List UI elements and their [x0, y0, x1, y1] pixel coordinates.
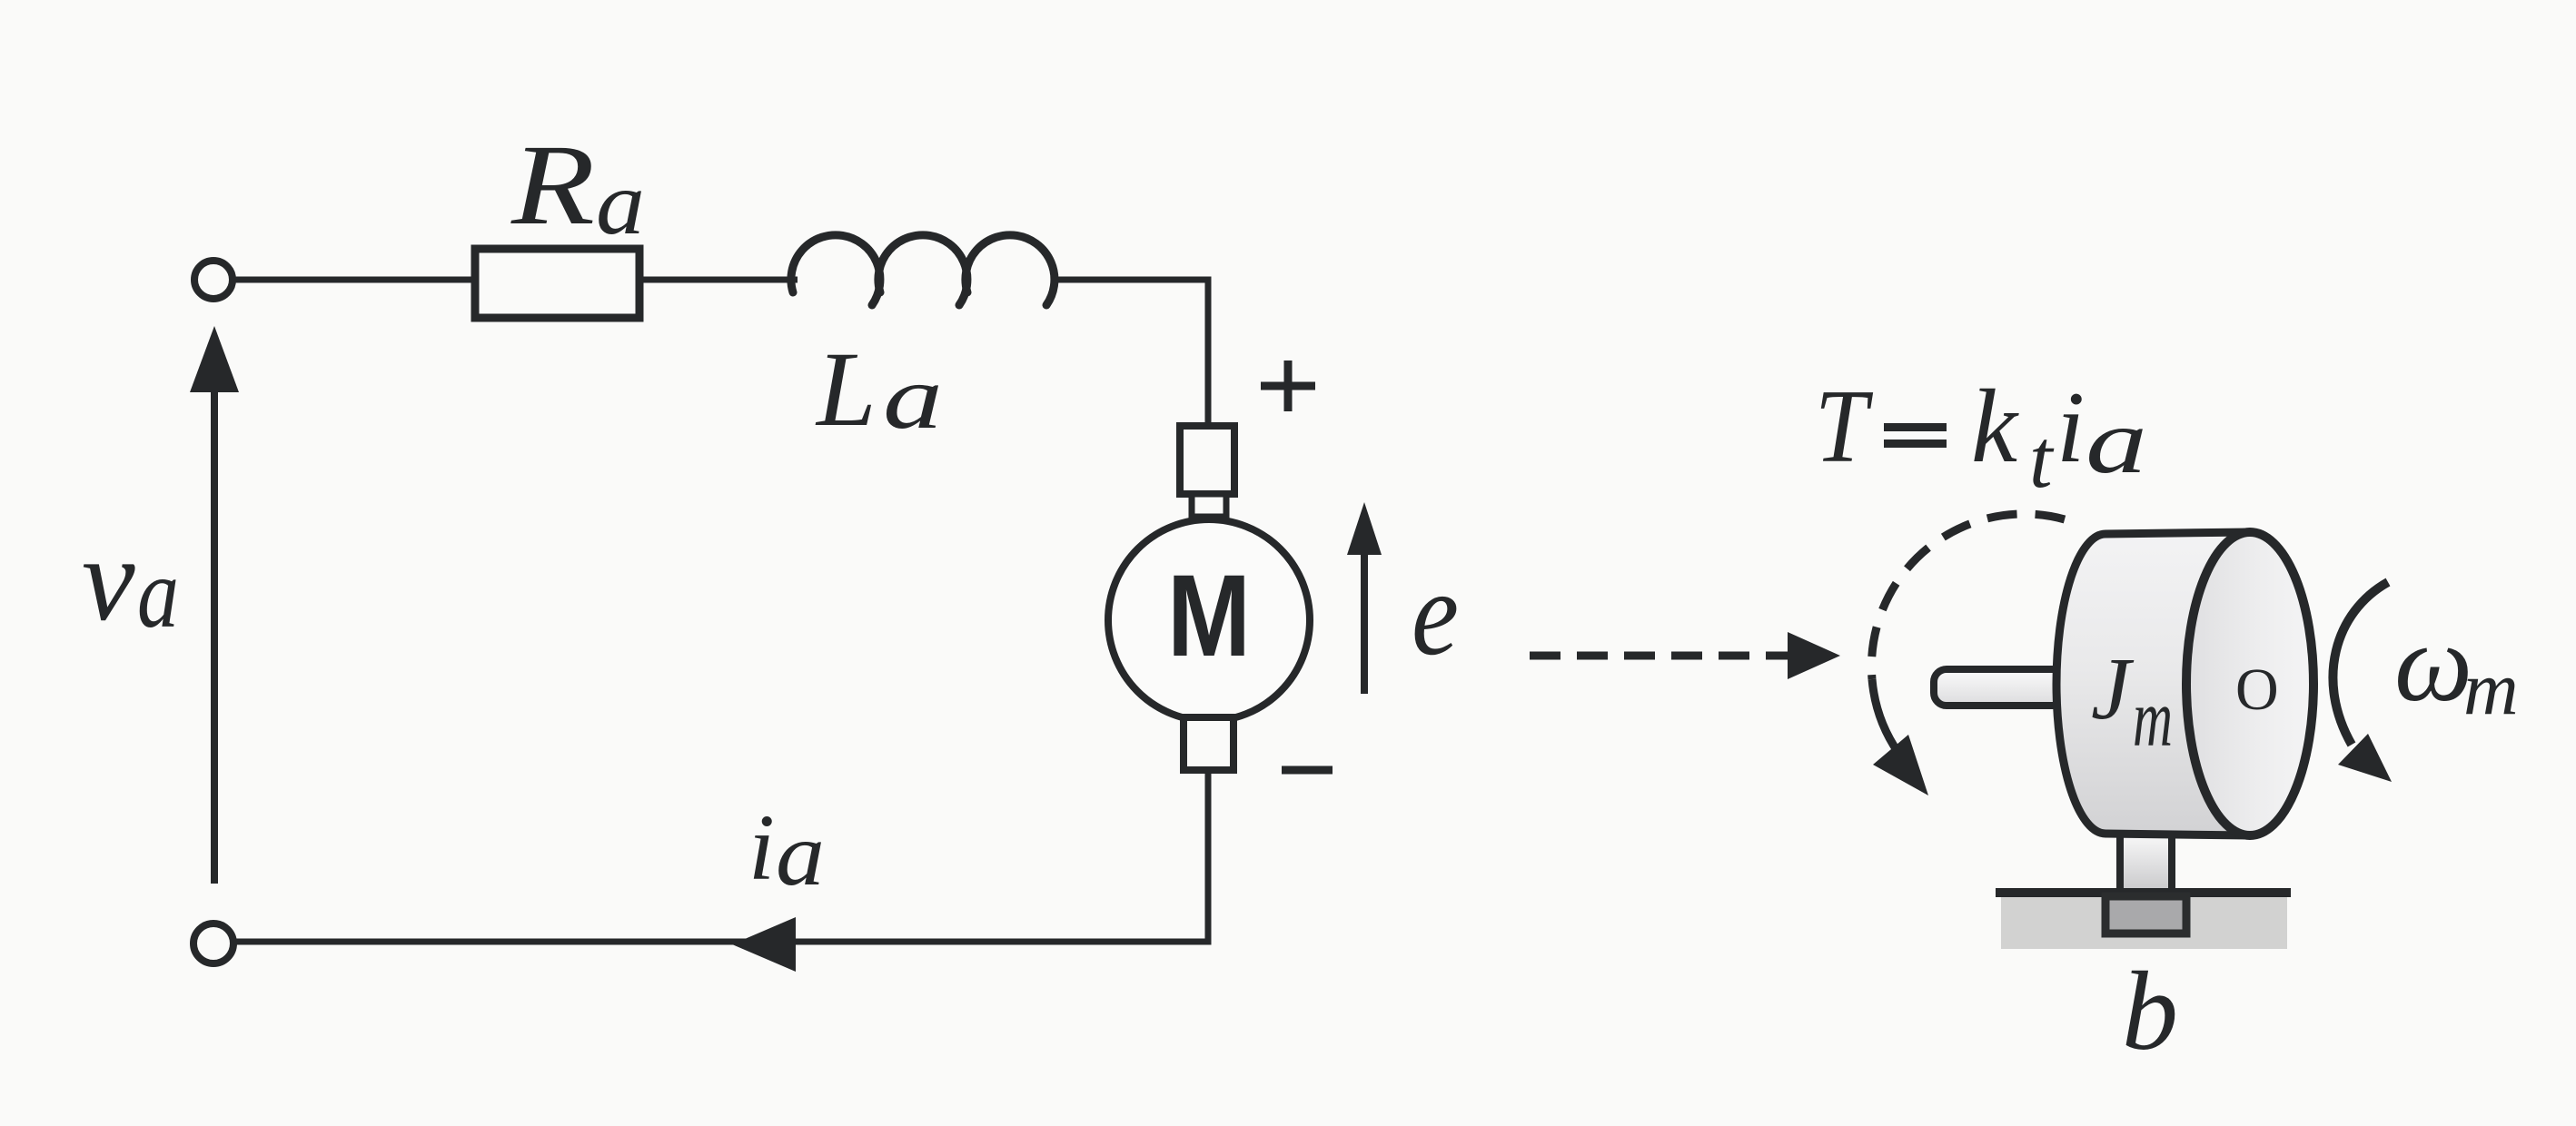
svg-text:T: T	[1815, 369, 1873, 484]
wire inductor to motor top	[1054, 280, 1208, 428]
svg-text:k: k	[1971, 369, 2019, 484]
svg-text:a: a	[596, 153, 645, 253]
torque arc dashed	[1871, 514, 2065, 679]
ground block	[2001, 897, 2287, 949]
svg-text:M: M	[1167, 551, 1251, 681]
label La	[815, 330, 943, 449]
torque arc solid with arrowhead	[1872, 679, 1928, 795]
motor brush neck top	[1192, 494, 1226, 517]
svg-text:t: t	[2029, 412, 2055, 505]
svg-text:m: m	[2463, 647, 2519, 731]
shaft	[1934, 669, 2070, 706]
svg-text:b: b	[2122, 949, 2178, 1073]
minus label	[1282, 766, 1333, 775]
svg-text:a: a	[137, 538, 179, 648]
label ia	[748, 795, 825, 904]
label O on face	[2235, 657, 2279, 723]
svg-text:e: e	[1412, 546, 1459, 680]
inductor La	[791, 235, 1055, 305]
svg-text:O: O	[2235, 657, 2279, 723]
ground line	[1996, 888, 2291, 897]
svg-text:J: J	[2091, 640, 2135, 738]
svg-text:ω: ω	[2394, 602, 2472, 725]
rotor cylinder Jm	[2056, 532, 2313, 835]
motor M circle	[1108, 519, 1310, 721]
omega arc arrow	[2333, 582, 2392, 782]
wire resistor to inductor	[641, 277, 798, 283]
label Ra	[510, 122, 645, 253]
svg-text:i: i	[2056, 371, 2085, 484]
pedestal	[2120, 828, 2172, 892]
label e	[1412, 546, 1459, 680]
label Jm	[2091, 640, 2173, 764]
emf arrow e	[1347, 502, 1382, 694]
svg-text:v: v	[82, 512, 135, 646]
svg-text:a: a	[883, 347, 943, 448]
wire terminal to resistor	[233, 277, 473, 283]
coupling dashed arrow	[1530, 632, 1840, 679]
terminal bottom-left	[193, 924, 233, 963]
svg-text:a: a	[776, 804, 825, 904]
svg-text:R: R	[510, 122, 595, 249]
motor brush box bottom	[1184, 717, 1234, 770]
terminal top-left	[194, 261, 233, 299]
current arrowhead ia	[732, 917, 796, 972]
svg-text:m: m	[2133, 674, 2173, 764]
label omega m	[2394, 602, 2519, 731]
label T = kt ia	[1815, 369, 2147, 505]
label va	[82, 512, 179, 648]
wire motor bottom to terminal	[233, 770, 1208, 942]
damper socket b	[2105, 896, 2186, 933]
svg-text:L: L	[815, 330, 877, 449]
resistor Ra	[475, 249, 639, 318]
va arrow	[190, 326, 239, 884]
label b	[2122, 949, 2178, 1073]
svg-text:i: i	[748, 795, 775, 900]
svg-text:a: a	[2086, 390, 2147, 493]
motor brush box top	[1180, 426, 1234, 494]
plus label	[1261, 361, 1315, 411]
